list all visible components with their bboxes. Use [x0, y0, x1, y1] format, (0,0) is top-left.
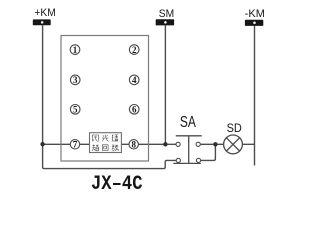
relay box JX-4C	[61, 36, 149, 162]
wire SM vertical	[164, 25, 166, 144]
svg-text:SM: SM	[159, 8, 174, 20]
terminal +KM	[33, 19, 51, 25]
pin 5	[70, 105, 80, 115]
pin 4	[129, 75, 139, 85]
svg-text:SA: SA	[180, 114, 197, 131]
svg-text:5: 5	[73, 105, 78, 115]
wire pin7-pin8 row from +KM junction to SA left contact	[43, 143, 176, 145]
svg-text:+KM: +KM	[34, 7, 55, 19]
svg-text:6: 6	[132, 105, 137, 115]
pin 6	[129, 105, 139, 115]
switch SA crossbar	[176, 135, 202, 137]
switch SA lower right contact	[196, 158, 200, 162]
switch SA upper right contact	[196, 142, 200, 146]
junction dot at +KM pin7 row	[40, 142, 44, 146]
pin 2	[129, 45, 139, 55]
svg-text:4: 4	[132, 75, 137, 85]
wire SA lower right contact up to junction	[201, 144, 216, 160]
svg-text:2: 2	[132, 45, 137, 55]
junction dot at SA right / lamp	[213, 142, 217, 146]
switch SA actuator	[188, 136, 190, 164]
terminal -KM	[245, 20, 263, 26]
switch SA upper left contact	[176, 142, 180, 146]
terminal SM	[156, 19, 174, 25]
wire -KM vertical	[254, 26, 256, 166]
pin 7	[70, 140, 79, 150]
svg-text:-KM: -KM	[245, 8, 265, 20]
flash unit box (shan guang ji dian hui lu)	[90, 133, 122, 153]
pin 8	[129, 140, 138, 150]
switch SA bridge bar (NC)	[173, 162, 201, 164]
pin 3	[70, 75, 80, 85]
svg-text:7: 7	[73, 140, 78, 150]
svg-text:3: 3	[73, 75, 78, 85]
pin 1	[70, 45, 80, 55]
svg-text:1: 1	[73, 45, 78, 55]
switch SA lower left contact	[176, 158, 180, 162]
wire +KM vertical and bottom run to SA lower contact	[43, 25, 177, 168]
wire SA right contact to lamp and -KM	[200, 143, 254, 145]
junction dot at SM pin8 row	[163, 142, 167, 146]
svg-text:JX–4C: JX–4C	[91, 173, 143, 196]
lamp SD	[224, 135, 243, 154]
svg-text:SD: SD	[227, 121, 243, 135]
svg-text:8: 8	[131, 140, 136, 150]
